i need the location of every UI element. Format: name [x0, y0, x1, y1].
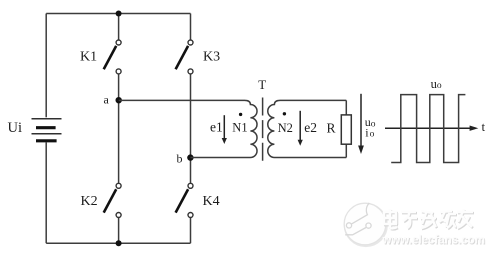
svg-text:K3: K3: [203, 49, 220, 64]
wire bottom rail: [46, 242, 190, 244]
svg-text:o: o: [370, 130, 375, 140]
svg-text:e2: e2: [304, 120, 317, 135]
watermark chinese text strokes (gray emboss shadow layer): [384, 210, 474, 229]
battery Ui plate long lower: [32, 133, 62, 135]
waveform time axis with arrow: [385, 126, 478, 131]
waveform uo square wave: [391, 95, 465, 163]
node b junction dot: [187, 154, 193, 160]
wire K2 to bottom rail: [118, 217, 120, 243]
switch K2: [104, 183, 121, 217]
switch K4: [176, 183, 193, 217]
wire left rail lower (battery bottom lead): [45, 142, 47, 243]
resistor R body: [341, 115, 351, 144]
wire K4 to bottom rail: [190, 217, 192, 243]
svg-text:o: o: [371, 119, 376, 129]
svg-text:o: o: [437, 81, 442, 91]
wire K3 to node b (crosses a-line): [190, 74, 192, 158]
wire resistor to secondary bottom corner: [345, 144, 347, 157]
svg-text:N1: N1: [232, 121, 247, 135]
svg-text:a: a: [104, 92, 110, 106]
transformer secondary winding N2 with output loop to resistor R: [268, 100, 347, 157]
polarity dot primary: [239, 113, 242, 116]
battery Ui plate long top: [32, 118, 62, 120]
wire K1 branch from top rail: [118, 14, 120, 41]
polarity dot secondary: [283, 112, 286, 115]
wire node b to K4: [190, 158, 192, 184]
wire top rail: [46, 13, 190, 15]
battery Ui plate short thick lower: [36, 139, 57, 142]
switch K1: [104, 40, 121, 74]
junction dot bottom rail: [116, 240, 122, 246]
e1 arrow: [222, 115, 227, 144]
transformer core dashed line: [262, 98, 264, 163]
wire left rail upper (battery top lead): [45, 14, 47, 118]
wire secondary top corner to resistor: [345, 100, 347, 115]
svg-text:N2: N2: [278, 121, 293, 135]
svg-text:T: T: [258, 77, 266, 92]
e2 arrow: [298, 111, 303, 146]
wire K1 to node a: [118, 74, 120, 100]
svg-text:e1: e1: [210, 120, 223, 135]
watermark logo circuit trace: [345, 203, 371, 235]
svg-text:Ui: Ui: [8, 120, 23, 136]
transformer T primary winding N1 (wire from node a into coil, coil, wire to node b): [119, 100, 257, 157]
svg-text:K2: K2: [81, 194, 98, 209]
svg-text:R: R: [327, 121, 336, 136]
node a junction dot: [116, 97, 122, 103]
svg-text:t: t: [482, 119, 486, 134]
switch K3: [176, 40, 193, 74]
output uo io arrow: [358, 94, 364, 154]
watermark logo circle: [345, 204, 387, 246]
wire node a to K2: [118, 100, 120, 183]
battery Ui plate short thick upper: [36, 126, 56, 129]
watermark chinese text strokes (white top layer): [383, 209, 473, 228]
svg-text:K4: K4: [203, 194, 220, 209]
svg-text:b: b: [177, 151, 183, 165]
svg-text:www.elecfans.com: www.elecfans.com: [382, 235, 485, 247]
junction dot top rail: [116, 11, 122, 17]
wire K3 branch from top rail: [190, 14, 192, 41]
svg-text:K1: K1: [80, 49, 97, 64]
